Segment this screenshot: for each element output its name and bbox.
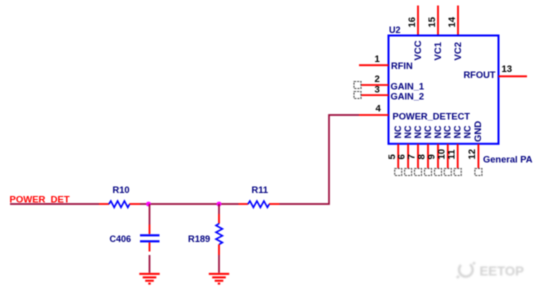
pin 13 RFOUT stub bbox=[499, 75, 528, 77]
svg-text:4: 4 bbox=[376, 104, 382, 115]
svg-text:NC: NC bbox=[443, 125, 453, 138]
svg-text:POWER_DETECT: POWER_DETECT bbox=[393, 112, 471, 122]
watermark logo bbox=[457, 262, 475, 277]
resistor R11 bbox=[248, 201, 269, 207]
wire R189 branch bbox=[218, 204, 220, 214]
svg-text:16: 16 bbox=[407, 17, 418, 28]
IC U2 body rectangle bbox=[389, 36, 499, 144]
pin 4 POWER_DETECT stub bbox=[359, 114, 389, 116]
svg-text:RFOUT: RFOUT bbox=[463, 70, 495, 80]
svg-text:2: 2 bbox=[375, 74, 380, 85]
wire between R10 and R11 bbox=[140, 203, 239, 205]
svg-text:GND: GND bbox=[473, 121, 484, 142]
resistor R11 pin stubs bbox=[239, 203, 280, 205]
svg-text:GAIN_2: GAIN_2 bbox=[391, 91, 425, 101]
resistor R189 bbox=[216, 224, 222, 245]
pin 12 GND stub bbox=[477, 144, 479, 168]
pin 11 stub bbox=[457, 144, 459, 168]
pin 16 VCC stub bbox=[417, 6, 419, 35]
svg-text:NC: NC bbox=[463, 125, 473, 138]
resistor R10 pin stubs bbox=[99, 203, 140, 205]
svg-text:NC: NC bbox=[453, 125, 463, 138]
svg-text:12: 12 bbox=[467, 149, 478, 160]
wire R11 to pin 4 riser bbox=[280, 115, 360, 204]
svg-text:15: 15 bbox=[427, 16, 438, 27]
svg-text:14: 14 bbox=[447, 16, 458, 27]
ground (C406) bbox=[139, 274, 159, 284]
node junction 1 bbox=[146, 202, 151, 207]
no-connect square pin 3 bbox=[354, 92, 361, 99]
svg-text:VCC: VCC bbox=[413, 40, 424, 60]
pin 5 stub bbox=[397, 144, 399, 168]
svg-text:VC2: VC2 bbox=[453, 42, 464, 60]
pin 3 GAIN_2 stub bbox=[361, 94, 389, 96]
svg-text:NC: NC bbox=[423, 125, 433, 138]
svg-text:GAIN_1: GAIN_1 bbox=[391, 81, 425, 91]
svg-text:NC: NC bbox=[403, 125, 413, 138]
svg-text:1: 1 bbox=[375, 54, 381, 65]
wire R189 to ground bbox=[218, 255, 220, 273]
no-connect square pin 2 bbox=[354, 82, 361, 89]
ground (R189) bbox=[209, 274, 229, 284]
capacitor C406 pin stubs bbox=[149, 225, 151, 252]
capacitor C406 bbox=[140, 235, 160, 241]
pin 14 VC2 stub bbox=[457, 6, 459, 35]
svg-text:NC: NC bbox=[393, 125, 403, 138]
pin 9 stub bbox=[437, 144, 439, 168]
pin 10 stub bbox=[447, 144, 449, 168]
svg-text:R189: R189 bbox=[188, 234, 210, 244]
svg-text:3: 3 bbox=[375, 85, 380, 96]
wire main horizontal left bbox=[10, 203, 99, 205]
svg-text:NC: NC bbox=[413, 125, 423, 138]
svg-text:U2: U2 bbox=[389, 25, 401, 35]
node junction 2 bbox=[217, 202, 222, 207]
svg-text:R10: R10 bbox=[113, 185, 130, 195]
svg-text:General PA: General PA bbox=[483, 155, 533, 165]
wire C406 to ground bbox=[149, 255, 151, 273]
pin 2 GAIN_1 stub bbox=[361, 84, 389, 86]
pin 1 RFIN stub bbox=[359, 64, 389, 66]
svg-text:11: 11 bbox=[446, 149, 457, 160]
svg-text:EETOP: EETOP bbox=[480, 264, 525, 279]
svg-text:C406: C406 bbox=[110, 234, 132, 244]
resistor R10 bbox=[109, 201, 130, 207]
svg-text:NC: NC bbox=[433, 125, 443, 138]
svg-text:13: 13 bbox=[502, 64, 513, 75]
pin 7 stub bbox=[417, 144, 419, 168]
resistor R189 pin stubs bbox=[218, 214, 220, 255]
pin 6 stub bbox=[407, 144, 409, 168]
svg-text:RFIN: RFIN bbox=[391, 61, 413, 71]
pin 8 stub bbox=[427, 144, 429, 168]
svg-text:VC1: VC1 bbox=[433, 41, 444, 60]
wire C406 branch bbox=[149, 204, 151, 225]
svg-text:R11: R11 bbox=[252, 185, 269, 195]
pin 15 VC1 stub bbox=[437, 6, 439, 35]
